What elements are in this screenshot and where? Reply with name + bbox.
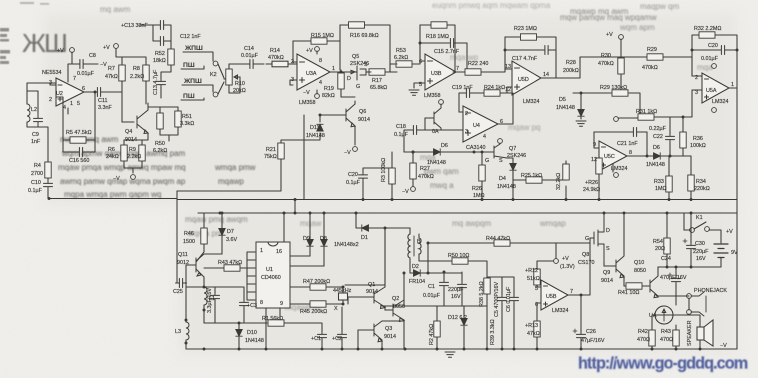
capacitor C24 xyxy=(672,275,681,286)
svg-text:1N4148: 1N4148 xyxy=(245,338,264,344)
svg-text:Q11: Q11 xyxy=(178,252,188,258)
node dot D1 right xyxy=(384,227,387,230)
wire L3 leads xyxy=(185,287,187,349)
svg-text:+R26: +R26 xyxy=(585,180,598,186)
node dot C1b top xyxy=(443,271,446,274)
svg-text:FR104: FR104 xyxy=(409,279,425,285)
wire battery leads xyxy=(720,258,722,268)
terminal U5A vplus xyxy=(712,64,717,69)
svg-text:1N4148: 1N4148 xyxy=(306,133,325,139)
diode D9 xyxy=(307,240,313,247)
svg-text:D9: D9 xyxy=(303,236,310,242)
svg-text:U3A: U3A xyxy=(306,71,317,77)
resistor R1 xyxy=(268,320,284,326)
wire R38 C5 C6 tops xyxy=(487,277,514,349)
svg-text:470Ω: 470Ω xyxy=(660,337,673,343)
svg-text:2: 2 xyxy=(49,97,52,103)
svg-text:9: 9 xyxy=(593,142,596,148)
node dot 213 a xyxy=(283,212,286,215)
svg-text:D8: D8 xyxy=(320,236,327,242)
node dot L3 top xyxy=(185,319,188,322)
svg-text:C19 1nF: C19 1nF xyxy=(452,85,473,91)
svg-text:7: 7 xyxy=(456,66,459,72)
diode D1 xyxy=(362,225,369,231)
svg-text:U1: U1 xyxy=(266,267,273,273)
svg-text:R9: R9 xyxy=(129,147,136,153)
svg-text:R29: R29 xyxy=(647,47,657,53)
svg-text:5: 5 xyxy=(419,82,422,88)
op-amp U4 CA3140 xyxy=(463,106,498,142)
capacitor C30 xyxy=(687,242,696,253)
node dot rail e xyxy=(512,198,515,201)
resistor R23 xyxy=(521,34,537,40)
svg-text:47µF/16V: 47µF/16V xyxy=(581,338,605,344)
svg-text:ПШ: ПШ xyxy=(183,93,195,100)
svg-text:0.01µF: 0.01µF xyxy=(77,71,95,77)
svg-text:7: 7 xyxy=(73,76,76,82)
wire R47 row xyxy=(290,287,343,293)
transformer B core xyxy=(413,236,415,256)
capacitor C13a xyxy=(157,21,168,30)
jack contact a xyxy=(687,294,692,299)
svg-text:5: 5 xyxy=(535,286,538,292)
svg-text:U2: U2 xyxy=(56,91,63,97)
wire U5D pin12 xyxy=(507,87,512,93)
svg-text:6: 6 xyxy=(82,86,85,92)
terminal -V below R6 R9 xyxy=(131,175,136,180)
svg-text:−V: −V xyxy=(402,189,409,195)
svg-text:G: G xyxy=(356,84,360,90)
svg-text:C13 4.7µF: C13 4.7µF xyxy=(153,69,159,95)
resistor R47 xyxy=(310,284,326,290)
svg-text:SPEAKER: SPEAKER xyxy=(687,320,693,346)
wire R23 loop xyxy=(505,37,556,78)
svg-text:+C3: +C3 xyxy=(247,303,257,309)
node dot R26 xyxy=(481,151,484,154)
resistor R33 xyxy=(666,176,672,192)
wire R45 row xyxy=(290,303,343,305)
terminal +V U2 xyxy=(70,48,75,53)
capacitor C21 xyxy=(630,128,641,137)
svg-text:+V: +V xyxy=(562,256,569,262)
node dot D10 xyxy=(238,322,241,325)
terminal +V R7 R8 xyxy=(114,44,119,49)
capacitor C14 xyxy=(246,60,257,69)
wire Q10 leads xyxy=(658,267,676,296)
svg-text:CD4060: CD4060 xyxy=(261,275,281,281)
svg-text:Q5: Q5 xyxy=(352,54,359,60)
zener D12 xyxy=(461,319,467,326)
svg-text:9: 9 xyxy=(280,301,283,307)
diode D5 xyxy=(578,110,584,117)
op-amp U3B LM358 xyxy=(425,54,456,90)
svg-text:R15 1MΩ: R15 1MΩ xyxy=(311,33,334,39)
svg-text:200kΩ: 200kΩ xyxy=(563,68,579,74)
node dots bottom rail xyxy=(203,348,206,351)
crystal X 445kHz xyxy=(339,293,348,300)
svg-text:1N4148: 1N4148 xyxy=(556,105,575,111)
svg-text:U5C: U5C xyxy=(604,154,615,160)
svg-text:Q9: Q9 xyxy=(603,270,610,276)
inductor L2 xyxy=(27,104,30,122)
switch row underline 1 xyxy=(183,52,213,61)
wire D10 branch xyxy=(238,323,240,349)
svg-text:3.3kΩ: 3.3kΩ xyxy=(180,121,194,127)
svg-text:C6 0.01µF: C6 0.01µF xyxy=(506,286,512,312)
wire node row y267 xyxy=(658,266,721,268)
terminal jfet switch xyxy=(439,100,444,105)
svg-text:R26: R26 xyxy=(472,186,482,192)
wire D7 branch xyxy=(204,213,222,254)
switch K2 xyxy=(218,64,224,94)
ground D5 xyxy=(576,121,586,126)
wire Q1 leads xyxy=(348,228,393,310)
wire D5 branch xyxy=(580,93,582,119)
svg-text:1MΩ: 1MΩ xyxy=(473,193,485,199)
wire R43 row xyxy=(204,268,247,276)
svg-text:470kΩ: 470kΩ xyxy=(268,55,284,61)
svg-text:+R12: +R12 xyxy=(525,268,538,274)
wire transformer leads xyxy=(410,228,452,273)
svg-text:G: G xyxy=(585,236,589,242)
svg-text:470µF/16V: 470µF/16V xyxy=(660,275,687,281)
svg-text:47kΩ: 47kΩ xyxy=(105,74,118,80)
svg-text:8: 8 xyxy=(260,300,263,306)
svg-text:470kΩ: 470kΩ xyxy=(598,61,614,67)
svg-text:X: X xyxy=(334,306,338,312)
wire R13 branch xyxy=(537,303,541,349)
svg-text:8050: 8050 xyxy=(634,268,646,274)
svg-text:5: 5 xyxy=(77,101,80,107)
svg-text:75kΩ: 75kΩ xyxy=(264,154,277,160)
svg-text:D6: D6 xyxy=(441,143,448,149)
node dot D1 top xyxy=(355,212,358,215)
svg-text:−V: −V xyxy=(344,150,351,156)
transformer B secondary xyxy=(419,238,421,254)
svg-text:R30: R30 xyxy=(601,53,611,59)
wire K2 to C14 R14 U3A xyxy=(229,63,297,65)
switch K2 contact b xyxy=(213,92,218,97)
resistor R42 xyxy=(649,330,655,346)
svg-text:R7: R7 xyxy=(108,66,115,72)
svg-text:C25: C25 xyxy=(173,289,183,295)
wire U5C power stem xyxy=(612,164,614,172)
svg-text:Q3: Q3 xyxy=(385,326,392,332)
wire R15 feedback loop xyxy=(293,41,340,70)
wire R54 branch xyxy=(666,213,668,267)
svg-text:R27: R27 xyxy=(420,166,430,172)
svg-text:U5B: U5B xyxy=(546,294,557,300)
svg-text:U3B: U3B xyxy=(431,71,442,77)
wire Q2 leads xyxy=(403,273,405,349)
svg-text:D6: D6 xyxy=(653,145,660,151)
wire R26b branch xyxy=(598,156,600,199)
rail -V top section xyxy=(177,199,737,201)
svg-text:wqm apm: wqm apm xyxy=(619,23,655,32)
svg-text:51kΩ: 51kΩ xyxy=(527,276,540,282)
switch K1 xyxy=(684,213,721,243)
svg-text:mwq a: mwq a xyxy=(430,181,454,190)
svg-text:ПШ: ПШ xyxy=(183,62,195,69)
svg-text:1: 1 xyxy=(260,248,263,254)
terminal +V 1.3 xyxy=(554,259,559,264)
diode D6 xyxy=(434,149,441,155)
jfet Q7 2SK246 xyxy=(494,143,510,158)
node dot R54 top xyxy=(666,212,669,215)
node dot U2 out xyxy=(94,91,97,94)
svg-text:S: S xyxy=(499,158,503,164)
jack contact b xyxy=(687,310,692,315)
resistor R8 xyxy=(143,65,149,81)
node dot C24 top xyxy=(675,266,678,269)
resistor R34 xyxy=(688,175,694,191)
capacitor C17 xyxy=(541,46,552,55)
svg-text:9012: 9012 xyxy=(177,260,189,266)
svg-text:1MΩ: 1MΩ xyxy=(655,186,667,192)
svg-text:24kΩ: 24kΩ xyxy=(106,154,119,160)
node dots bottom right rail xyxy=(536,348,539,351)
jfet switch Q xyxy=(425,104,441,130)
wire C1b branch xyxy=(443,272,445,306)
resistor R4 xyxy=(45,162,51,178)
svg-text:0.22µF: 0.22µF xyxy=(649,126,667,132)
wire CD4060 left pin bus xyxy=(247,252,255,300)
resistor R16 xyxy=(349,22,365,28)
resistor R2 xyxy=(434,321,440,337)
resistor R19 xyxy=(338,73,344,89)
wire C17 loop xyxy=(505,50,556,78)
svg-text:7: 7 xyxy=(570,289,573,295)
inductor L3 xyxy=(186,322,189,340)
svg-text:R50 10Ω: R50 10Ω xyxy=(448,253,469,259)
svg-text:C10: C10 xyxy=(31,180,41,186)
svg-text:mq awm: mq awm xyxy=(100,5,131,14)
svg-text:mqawp mq awm: mqawp mq awm xyxy=(570,7,629,16)
svg-text:9014: 9014 xyxy=(601,278,613,284)
svg-text:9014: 9014 xyxy=(358,117,370,123)
svg-text:ЖПШ: ЖПШ xyxy=(184,45,203,52)
svg-text:12: 12 xyxy=(591,157,597,163)
svg-text:+R13: +R13 xyxy=(525,323,538,329)
svg-text:+V: +V xyxy=(103,45,110,51)
terminal -V U3A xyxy=(315,94,320,99)
resistor R12 xyxy=(534,269,540,285)
svg-text:C1: C1 xyxy=(428,284,435,290)
svg-text:+V: +V xyxy=(726,229,733,235)
svg-text:R2 47kΩ: R2 47kΩ xyxy=(429,324,435,345)
svg-text:9014: 9014 xyxy=(384,334,396,340)
transistor Q4 9014 xyxy=(137,110,148,134)
svg-text:R23 1MΩ: R23 1MΩ xyxy=(514,26,537,32)
svg-text:LM358: LM358 xyxy=(424,93,440,99)
node dot rail h xyxy=(668,198,671,201)
jfet Q5 2SK246 xyxy=(345,66,371,80)
wire U2 pins xyxy=(50,64,95,140)
resistor R21 xyxy=(278,143,284,159)
capacitor C2e xyxy=(338,331,347,342)
switch K1 contact b xyxy=(705,227,710,232)
svg-text:G: G xyxy=(485,158,489,164)
svg-text:R41 10Ω: R41 10Ω xyxy=(618,290,639,296)
svg-text:R53: R53 xyxy=(396,48,406,54)
svg-text:R19: R19 xyxy=(324,86,334,92)
capacitor C9 xyxy=(34,115,43,126)
terminal +V U3A xyxy=(315,47,320,52)
capacitor C13r xyxy=(157,78,166,89)
capacitor ladder C13 C12 xyxy=(139,25,171,98)
resistor R54 xyxy=(664,238,670,254)
resistor R29 xyxy=(612,90,628,96)
wire signal row y152 xyxy=(404,151,494,153)
svg-text:C21 1nF: C21 1nF xyxy=(617,141,638,147)
node dot rail j xyxy=(412,151,415,154)
resistor R9 xyxy=(139,145,145,161)
diode D2 FR104 xyxy=(414,270,421,276)
resistor R37 xyxy=(563,164,569,180)
svg-text:wmqa pmw: wmqa pmw xyxy=(214,163,256,172)
svg-text:16V: 16V xyxy=(451,294,461,300)
wire C26 branch xyxy=(580,295,582,349)
svg-text:82kΩ: 82kΩ xyxy=(322,93,335,99)
svg-text:R52: R52 xyxy=(155,51,165,57)
wire C15 loop xyxy=(420,43,467,72)
node dot rail connector xyxy=(294,212,297,215)
svg-text:−V: −V xyxy=(720,343,727,349)
svg-text:R44 47kΩ: R44 47kΩ xyxy=(486,236,510,242)
resistor R27 xyxy=(410,163,416,179)
resistor R6 xyxy=(121,145,127,161)
wire Q11 emitter to L1 xyxy=(186,277,204,323)
svg-text:R54: R54 xyxy=(653,239,663,245)
svg-text:2.2kΩ: 2.2kΩ xyxy=(127,154,141,160)
wire C2e branch xyxy=(341,307,343,349)
wire D12 branch xyxy=(463,306,465,349)
wire row y93 xyxy=(573,93,640,117)
svg-text:L2: L2 xyxy=(31,107,37,113)
svg-text:R42: R42 xyxy=(638,329,648,335)
resistor R13 xyxy=(534,321,540,337)
svg-text:3: 3 xyxy=(291,77,294,83)
capacitor C12 xyxy=(157,37,168,46)
svg-text:C16 560: C16 560 xyxy=(69,158,89,164)
svg-text:65.8kΩ: 65.8kΩ xyxy=(370,85,387,91)
phone jack xyxy=(691,292,706,316)
svg-text:CS170: CS170 xyxy=(578,260,594,266)
svg-text:24.9kΩ: 24.9kΩ xyxy=(583,187,600,193)
wire U3B pin5 to ground xyxy=(414,83,425,88)
svg-text:445kHz: 445kHz xyxy=(333,288,352,294)
wire K2 to R10 xyxy=(224,64,246,93)
wire D9 branch xyxy=(290,213,310,256)
svg-text:R33: R33 xyxy=(654,179,664,185)
node dot R44 left xyxy=(427,242,430,245)
wire U5B output xyxy=(568,243,590,295)
resistor R22 xyxy=(465,69,481,75)
node dot rail connector2 xyxy=(219,212,222,215)
svg-text:mqpa wmqa pwm qapm wq: mqpa wmqa pwm qapm wq xyxy=(64,190,161,199)
svg-text:3: 3 xyxy=(695,90,698,96)
node dot rail b xyxy=(362,198,365,201)
transistor Q6 9014 xyxy=(346,104,355,127)
svg-text:LM324: LM324 xyxy=(611,166,627,172)
capacitor C18 xyxy=(410,126,421,135)
svg-text:Q10: Q10 xyxy=(634,260,644,266)
svg-text:K2: K2 xyxy=(210,72,217,78)
node dot D6 Q7 xyxy=(473,151,476,154)
resistor R43 xyxy=(224,265,240,271)
wire R41 row xyxy=(624,285,650,287)
svg-text:6.2kΩ: 6.2kΩ xyxy=(394,55,408,61)
op-amp U5A LM324 xyxy=(702,73,729,103)
svg-text:4: 4 xyxy=(483,134,486,140)
transistor Q3 9014 xyxy=(374,321,382,342)
svg-text:C24: C24 xyxy=(661,256,671,262)
op-amp U3A LM358 xyxy=(297,54,330,90)
switch row underline 2 xyxy=(181,66,204,69)
node dot L1 bottom xyxy=(203,309,206,312)
resistor R36 xyxy=(680,132,686,148)
resistor R14 xyxy=(272,61,288,67)
svg-text:R39 3.3kΩ: R39 3.3kΩ xyxy=(490,319,496,345)
svg-text:D: D xyxy=(606,228,610,234)
node dot C20 left xyxy=(691,49,694,52)
svg-text:R22 240: R22 240 xyxy=(468,61,488,67)
terminal U5C vminus xyxy=(614,173,619,178)
svg-text:1N4148: 1N4148 xyxy=(497,184,516,190)
svg-text:2700: 2700 xyxy=(31,171,43,177)
svg-text:Q1: Q1 xyxy=(368,282,375,288)
svg-text:mqaw: mqaw xyxy=(300,219,322,228)
svg-text:1500: 1500 xyxy=(183,239,195,245)
terminal R31 input xyxy=(614,117,619,122)
node dot C20 right xyxy=(736,49,739,52)
wire C20 loop xyxy=(692,49,737,51)
svg-text:K1: K1 xyxy=(696,215,703,221)
svg-text:U5A: U5A xyxy=(706,88,717,94)
node dot R36 top xyxy=(682,116,685,119)
wire R36 branch xyxy=(682,117,684,156)
capacitor C7 xyxy=(458,281,467,292)
page edge glyph marks xyxy=(0,28,10,64)
node dot U5B out xyxy=(580,294,583,297)
svg-text:R17: R17 xyxy=(372,78,382,84)
node dot y267 b xyxy=(690,266,693,269)
wire pot arrow xyxy=(234,75,240,93)
capacitor C1e xyxy=(318,331,327,342)
svg-text:C9: C9 xyxy=(32,132,39,138)
svg-text:2SK246: 2SK246 xyxy=(507,153,526,159)
wire U3A power pins xyxy=(290,51,317,94)
wire Q4 collector emitter xyxy=(124,107,148,173)
svg-text:D1: D1 xyxy=(361,235,368,241)
svg-text:16V: 16V xyxy=(696,256,706,262)
svg-text:9V: 9V xyxy=(731,250,738,256)
svg-text:−V: −V xyxy=(303,90,310,96)
transistor Q2 8050 xyxy=(393,300,404,322)
svg-text:C18: C18 xyxy=(396,124,406,130)
svg-text:C5 4700P/16V: C5 4700P/16V xyxy=(494,282,500,317)
svg-text:470kΩ: 470kΩ xyxy=(642,65,658,71)
node dot D7 top xyxy=(221,212,224,215)
svg-text:C17 4.7nF: C17 4.7nF xyxy=(512,56,538,62)
svg-text:L3: L3 xyxy=(175,329,181,335)
svg-text:http://www.go-gddq.com: http://www.go-gddq.com xyxy=(578,355,748,373)
wire R30 branch xyxy=(620,39,622,93)
transformer B primary xyxy=(408,234,410,258)
svg-text:R32 2.2MΩ: R32 2.2MΩ xyxy=(694,26,721,32)
wire left column to rail xyxy=(177,115,304,199)
wire U5A out xyxy=(692,57,737,88)
